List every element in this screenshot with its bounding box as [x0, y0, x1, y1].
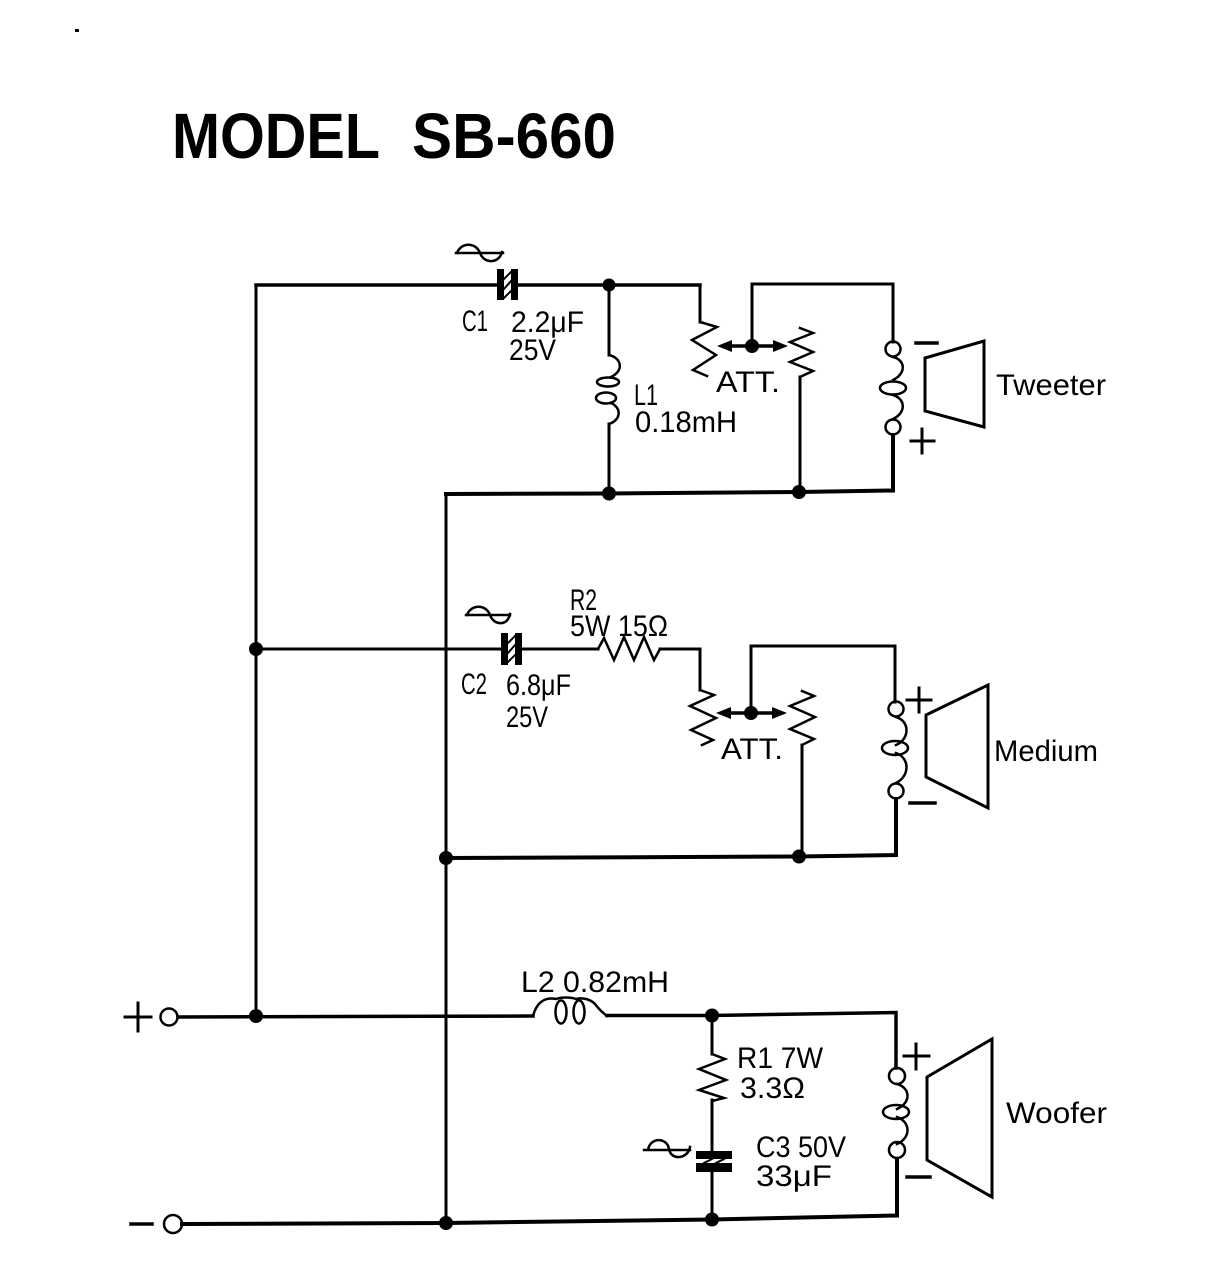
wire L1 branch	[608, 285, 611, 494]
input plus terminal	[125, 1003, 178, 1031]
wire woofer bottom bus	[182, 1159, 897, 1224]
wire mid - bus vertical	[445, 494, 448, 1223]
node junction C1 out	[603, 279, 616, 292]
svg-text:Tweeter: Tweeter	[996, 369, 1106, 402]
speaker tweeter voice coil	[880, 342, 906, 435]
label Medium	[994, 735, 1098, 768]
wire left + bus vertical	[255, 285, 258, 1016]
inductor L1	[596, 355, 620, 424]
svg-text:0.18mH: 0.18mH	[635, 406, 737, 439]
speaker medium voice coil	[882, 702, 908, 799]
label L1 value	[634, 379, 737, 439]
svg-text:Woofer: Woofer	[1006, 1097, 1107, 1130]
label R1 value	[737, 1042, 824, 1105]
resistor ATT medium left	[690, 690, 716, 745]
wire medium bottom bus	[446, 799, 896, 858]
tweeter minus	[916, 341, 937, 345]
wire medium feed	[256, 648, 700, 651]
node junction medium feed tap	[249, 642, 263, 656]
svg-text:C1: C1	[462, 305, 488, 338]
speaker tweeter cone	[925, 341, 984, 427]
svg-text:6.8μF: 6.8μF	[506, 669, 571, 702]
speaker medium cone	[926, 685, 988, 808]
resistor R2	[598, 637, 660, 660]
svg-text:ATT.: ATT.	[716, 366, 780, 399]
wire C3 to bottom	[711, 1172, 714, 1220]
node junction minus bus	[439, 1216, 453, 1230]
svg-text:5W 15Ω: 5W 15Ω	[570, 610, 668, 643]
resistor ATT medium right	[790, 691, 815, 745]
label C1 value	[462, 305, 584, 367]
resistor R1	[699, 1054, 726, 1101]
wire ATT medium right to bottom	[801, 745, 804, 857]
woofer minus	[907, 1175, 930, 1179]
svg-text:ATT.: ATT.	[721, 733, 783, 766]
node junction ATT tweeter bottom	[792, 485, 806, 499]
medium minus	[910, 801, 935, 805]
label C2 value	[461, 668, 571, 734]
nonpolar mark C2	[466, 607, 510, 623]
node junction left bus tap	[249, 1009, 263, 1023]
capacitor C1	[497, 269, 518, 300]
label ATT medium	[721, 733, 783, 766]
svg-text:L2 0.82mH: L2 0.82mH	[521, 966, 669, 999]
label C3 value	[756, 1131, 846, 1193]
svg-text:33μF: 33μF	[756, 1160, 832, 1193]
potentiometer wiper medium	[716, 706, 787, 720]
svg-text:MODEL: MODEL	[172, 100, 380, 172]
input minus terminal	[131, 1215, 182, 1233]
svg-text:3.3Ω: 3.3Ω	[740, 1072, 805, 1105]
wire tweeter bottom bus	[446, 435, 893, 494]
label Tweeter	[996, 369, 1106, 402]
label Woofer	[1006, 1097, 1107, 1130]
capacitor C2	[501, 633, 522, 665]
potentiometer wiper tweeter	[717, 339, 788, 353]
node junction medium bus left	[439, 851, 453, 865]
wire to medium ATT	[699, 649, 702, 690]
resistor ATT tweeter left	[692, 322, 717, 376]
svg-text:25V: 25V	[506, 701, 548, 734]
svg-text:Medium: Medium	[994, 735, 1098, 768]
node junction R1 top	[705, 1009, 719, 1023]
wire woofer feed	[178, 1013, 896, 1069]
svg-text:SB-660: SB-660	[412, 100, 616, 172]
scan speck	[75, 29, 79, 32]
speaker woofer cone	[927, 1039, 992, 1197]
node junction L1 bottom	[602, 487, 616, 501]
title MODEL SB-660	[172, 100, 616, 172]
tweeter plus	[911, 429, 934, 453]
wire to tweeter ATT	[699, 285, 702, 322]
node junction C3 bottom	[705, 1213, 719, 1227]
capacitor C3	[696, 1151, 732, 1172]
wire tweeter feed top	[256, 283, 700, 287]
wire R1 branch	[711, 1015, 714, 1150]
woofer plus	[904, 1044, 929, 1069]
label L2 value	[521, 966, 669, 999]
svg-text:25V: 25V	[509, 334, 556, 367]
label R2 value	[570, 584, 668, 643]
svg-text:C2: C2	[461, 668, 487, 701]
label ATT tweeter	[716, 366, 780, 399]
nonpolar mark C3	[644, 1140, 690, 1157]
svg-text:R1 7W: R1 7W	[737, 1042, 824, 1075]
inductor L2	[533, 998, 607, 1024]
speaker woofer voice coil	[883, 1068, 909, 1158]
medium plus	[907, 688, 931, 712]
node junction ATT medium bottom	[792, 850, 806, 864]
wire wiper to medium	[751, 646, 895, 707]
nonpolar mark C1	[456, 245, 503, 261]
resistor ATT tweeter right	[790, 328, 813, 377]
wire wiper to tweeter	[752, 284, 893, 342]
wire ATT right to bottom	[799, 377, 802, 492]
